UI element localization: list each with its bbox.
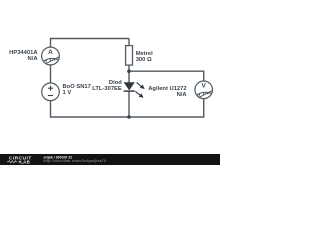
svg-text:http://circuitlab.com/c2e6ya4j: http://circuitlab.com/c2e6ya4jrka75 — [44, 159, 107, 163]
svg-text:LAB: LAB — [20, 159, 30, 164]
